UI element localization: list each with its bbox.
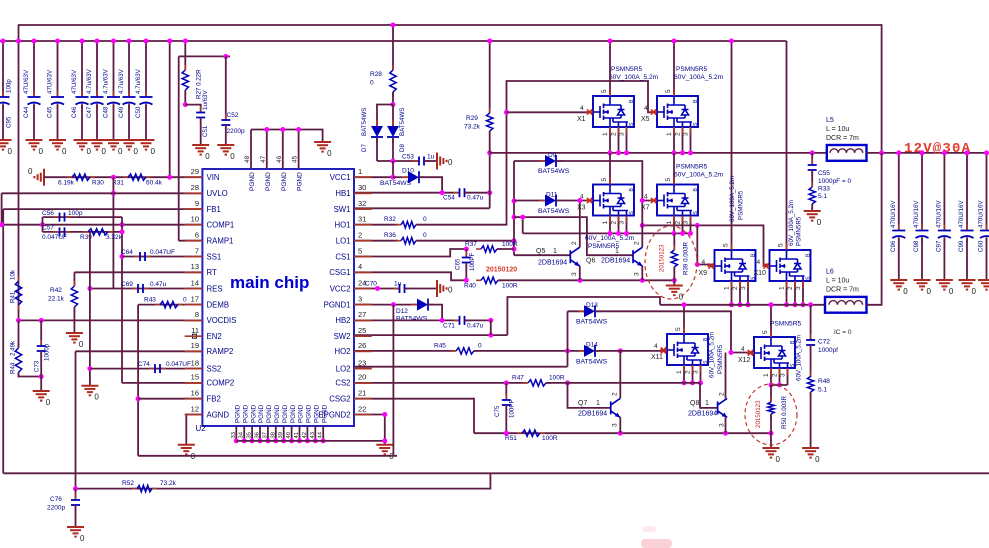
capacitor C52	[225, 56, 227, 120]
svg-text:60V_100A_5.2m: 60V_100A_5.2m	[796, 335, 803, 381]
diode D11 BAT54WS	[514, 200, 545, 202]
wire UVLO	[2, 192, 203, 194]
wire LO2 riser to D13	[567, 311, 569, 366]
svg-text:DEMB: DEMB	[207, 300, 230, 309]
svg-text:L6: L6	[826, 269, 834, 276]
svg-text:27: 27	[358, 310, 366, 319]
svg-text:C72: C72	[818, 339, 830, 346]
wire HO1	[354, 224, 398, 226]
svg-text:UVLO: UVLO	[207, 189, 228, 198]
svg-text:BAT54WS: BAT54WS	[396, 316, 428, 323]
svg-text:C60: C60	[978, 240, 985, 252]
svg-text:0: 0	[8, 147, 13, 156]
resistor R43	[155, 304, 183, 306]
wire VOCDIS	[19, 319, 203, 321]
svg-text:PSMN5R5: PSMN5R5	[588, 243, 619, 250]
svg-text:C54: C54	[443, 195, 455, 202]
svg-text:COMP1: COMP1	[207, 221, 235, 230]
resistor R52	[132, 488, 157, 490]
svg-text:R50 0.003R: R50 0.003R	[781, 395, 788, 429]
svg-text:4: 4	[644, 105, 648, 112]
svg-text:100R: 100R	[549, 375, 565, 382]
transistor Q8 2DB1694	[718, 398, 728, 417]
svg-text:RAMP2: RAMP2	[207, 347, 234, 356]
svg-text:13: 13	[191, 262, 199, 271]
wire left edge net	[1, 193, 3, 224]
wire COMP1	[2, 224, 203, 226]
svg-text:VOCDIS: VOCDIS	[207, 316, 237, 325]
svg-text:9: 9	[195, 199, 199, 208]
svg-text:0: 0	[949, 287, 954, 296]
svg-text:DCR = 7m: DCR = 7m	[826, 287, 859, 294]
svg-text:D11: D11	[546, 192, 558, 199]
svg-text:21: 21	[358, 389, 366, 398]
wire left loop vertical	[2, 209, 4, 473]
svg-text:R45: R45	[434, 343, 446, 350]
svg-text:4: 4	[358, 262, 362, 271]
svg-text:470U/16V: 470U/16V	[958, 200, 965, 228]
capacitor C75	[505, 383, 507, 400]
svg-text:COMP2: COMP2	[207, 379, 235, 388]
capacitor C74	[149, 368, 166, 370]
wire LO2	[354, 366, 568, 368]
wire FB1	[3, 208, 202, 210]
svg-text:470U/16V: 470U/16V	[935, 200, 942, 228]
svg-text:0.47u: 0.47u	[467, 323, 484, 330]
svg-text:3: 3	[693, 370, 700, 374]
svg-text:470U/16V: 470U/16V	[978, 200, 985, 228]
svg-text:100R: 100R	[542, 435, 558, 442]
svg-text:2: 2	[772, 373, 779, 377]
svg-text:20150120: 20150120	[486, 267, 517, 274]
capacitor C95	[2, 41, 4, 96]
svg-text:47: 47	[260, 155, 267, 163]
diode D9 BAT54WS	[514, 160, 545, 162]
svg-text:R43: R43	[144, 297, 156, 304]
svg-text:C70: C70	[365, 281, 377, 288]
svg-text:D14: D14	[586, 342, 598, 349]
resistor R44	[18, 343, 20, 378]
svg-text:60V_100A_5.2m: 60V_100A_5.2m	[674, 172, 724, 179]
svg-text:44: 44	[318, 431, 324, 438]
wire VIN row	[44, 176, 202, 178]
svg-text:PGND: PGND	[281, 172, 288, 191]
svg-text:3: 3	[795, 286, 802, 290]
svg-text:3: 3	[780, 373, 787, 377]
svg-text:PGND: PGND	[282, 404, 289, 423]
ground C53	[437, 153, 447, 170]
resistor R39 0.003R shunt	[673, 233, 675, 250]
svg-text:PGND: PGND	[290, 404, 297, 423]
wire AGND	[186, 415, 202, 445]
svg-text:0: 0	[134, 147, 139, 156]
svg-text:R37: R37	[465, 241, 477, 248]
svg-text:X9: X9	[699, 270, 708, 277]
svg-text:PGND: PGND	[274, 404, 281, 423]
wire Q8 collector	[725, 353, 727, 399]
svg-text:10k: 10k	[10, 269, 17, 280]
svg-text:BAT54WS: BAT54WS	[361, 108, 368, 136]
ground top pins	[314, 142, 331, 152]
ground C46	[74, 140, 91, 150]
svg-text:73.2k: 73.2k	[464, 124, 481, 131]
svg-text:D9: D9	[548, 152, 557, 159]
svg-text:5: 5	[601, 89, 608, 93]
wire phase2 node to L6	[660, 304, 825, 306]
svg-text:4.7u/63V: 4.7u/63V	[118, 68, 125, 94]
resistor R48	[810, 371, 812, 397]
svg-text:RT: RT	[207, 268, 217, 277]
wire pin22 EPGND2	[354, 415, 385, 445]
svg-text:PGND: PGND	[297, 172, 304, 191]
capacitor C73	[40, 320, 42, 346]
wire left riser to R41/VOCDIS	[18, 25, 20, 320]
resistor R31	[123, 176, 151, 178]
ground C95	[0, 140, 12, 150]
svg-text:0.47u: 0.47u	[150, 281, 167, 288]
svg-text:34: 34	[239, 431, 245, 438]
svg-text:R36: R36	[384, 232, 396, 239]
svg-text:45: 45	[292, 155, 299, 163]
wire X3 gate	[556, 200, 593, 202]
wire RAMP2	[76, 350, 203, 352]
resistor R27	[184, 41, 186, 70]
svg-text:3: 3	[571, 272, 578, 276]
svg-text:5: 5	[675, 327, 682, 331]
svg-text:HB2: HB2	[335, 316, 350, 325]
svg-text:2DB1694: 2DB1694	[688, 411, 717, 418]
svg-text:3.32k: 3.32k	[106, 234, 123, 241]
svg-text:C97: C97	[935, 240, 942, 252]
svg-text:1: 1	[666, 132, 673, 136]
svg-text:1000p: 1000p	[44, 343, 51, 361]
chip pins bottom PGND 33-44	[235, 426, 237, 441]
svg-text:DCR = 7m: DCR = 7m	[826, 135, 859, 142]
decorative pink blob	[641, 539, 672, 548]
svg-text:2200p: 2200p	[47, 505, 65, 512]
svg-text:0: 0	[927, 287, 932, 296]
svg-text:CS1: CS1	[335, 252, 350, 261]
svg-text:C95: C95	[6, 116, 13, 128]
svg-text:470U/16V: 470U/16V	[890, 200, 897, 228]
wire LO1 riser x514	[513, 161, 515, 255]
wire emitter bus y280.3	[498, 279, 674, 281]
wire SW2 riser to phase2	[507, 297, 660, 335]
svg-text:0: 0	[94, 393, 99, 402]
ground bottom right	[376, 445, 393, 455]
wire LO1	[354, 240, 398, 242]
svg-text:0: 0	[679, 293, 684, 302]
wire top bus V+ lower	[0, 40, 787, 42]
wire Q5 emitter	[579, 266, 581, 280]
svg-text:6.19k: 6.19k	[58, 180, 75, 187]
svg-text:AGND: AGND	[207, 410, 230, 419]
pin EN2 no-connect	[193, 334, 197, 338]
transistor Q6 2DB1694	[633, 247, 643, 266]
svg-text:0.047UF: 0.047UF	[150, 249, 175, 256]
svg-text:25: 25	[358, 326, 366, 335]
chip pins left	[185, 176, 203, 178]
svg-text:C73: C73	[34, 360, 41, 372]
wire SW1 to phase	[354, 207, 490, 209]
svg-text:48: 48	[244, 155, 251, 163]
svg-text:39: 39	[278, 432, 284, 438]
svg-text:Q6: Q6	[586, 258, 595, 265]
svg-text:32: 32	[358, 199, 366, 208]
svg-text:40: 40	[286, 432, 292, 438]
svg-text:31: 31	[358, 215, 366, 224]
wire X1 X5 sources to phase	[609, 127, 611, 153]
svg-text:20150123: 20150123	[755, 400, 762, 428]
svg-text:R29: R29	[466, 115, 478, 122]
svg-text:38: 38	[270, 432, 276, 438]
svg-text:Q8: Q8	[690, 400, 699, 407]
wire DEMB	[138, 304, 202, 306]
svg-text:5.1: 5.1	[818, 193, 827, 200]
svg-text:3: 3	[612, 423, 619, 427]
ground AGND	[178, 445, 195, 455]
svg-text:29: 29	[191, 167, 199, 176]
svg-text:main chip: main chip	[230, 273, 309, 292]
ground C48	[105, 140, 122, 150]
svg-text:Q5: Q5	[536, 248, 545, 255]
svg-text:PSMN5R5: PSMN5R5	[676, 66, 707, 73]
svg-text:X5: X5	[641, 116, 650, 123]
svg-text:11: 11	[191, 326, 199, 335]
wire R31 to bus	[169, 41, 171, 177]
wire HO1 riser and over-route	[416, 81, 657, 225]
capacitor C48	[113, 41, 115, 96]
svg-text:PGND: PGND	[249, 172, 256, 191]
svg-text:C44: C44	[23, 106, 30, 118]
svg-text:C57: C57	[42, 225, 54, 232]
svg-text:2: 2	[675, 132, 682, 136]
svg-text:C49: C49	[118, 106, 125, 118]
svg-text:0: 0	[87, 147, 92, 156]
svg-text:2: 2	[719, 392, 726, 396]
svg-text:C71: C71	[443, 323, 455, 330]
ground C70	[437, 280, 447, 297]
wire Q7 collector	[619, 351, 621, 399]
svg-text:C65: C65	[455, 258, 462, 270]
wire RT	[74, 271, 202, 273]
svg-text:R32: R32	[384, 216, 396, 223]
wire vcc sub-rail y56	[179, 55, 230, 57]
svg-text:4: 4	[644, 194, 648, 201]
svg-text:33: 33	[231, 432, 237, 438]
svg-text:C56: C56	[42, 210, 54, 217]
svg-text:4.7u/63V: 4.7u/63V	[135, 68, 142, 94]
ground R42	[66, 333, 83, 343]
svg-text:C50: C50	[135, 106, 142, 118]
chip pins top PGND 48-45	[250, 130, 252, 170]
svg-text:SS1: SS1	[207, 252, 222, 261]
wire Q5 base	[514, 254, 570, 256]
inductor L6	[825, 297, 867, 313]
transistor X3 PSMN5R5	[593, 185, 634, 216]
capacitor C72	[810, 305, 812, 340]
transistor X9 PSMN5R5	[715, 250, 756, 281]
svg-text:20: 20	[358, 373, 366, 382]
wire D9 to X7 gate	[556, 161, 657, 201]
svg-text:0: 0	[205, 152, 210, 161]
svg-text:PGND: PGND	[321, 404, 328, 423]
wire long riser x75.5	[75, 351, 77, 488]
svg-text:C47: C47	[86, 106, 93, 118]
svg-text:1000pF = 0: 1000pF = 0	[818, 178, 851, 185]
svg-text:43: 43	[310, 432, 316, 438]
svg-text:FB1: FB1	[207, 205, 221, 214]
svg-text:R42: R42	[50, 287, 62, 294]
wire RAMP1	[179, 240, 203, 242]
capacitor C53	[377, 160, 419, 162]
svg-text:0: 0	[327, 149, 332, 158]
wire X9 gate riser	[697, 225, 714, 264]
svg-text:28: 28	[191, 183, 199, 192]
svg-text:0: 0	[79, 340, 84, 349]
transistor X5 PSMN5R5	[657, 96, 698, 127]
svg-text:C74: C74	[138, 361, 150, 368]
svg-text:42: 42	[302, 432, 308, 438]
ground C49	[121, 140, 138, 150]
wire phase1 bus SW	[490, 152, 827, 154]
svg-text:5.1: 5.1	[818, 387, 827, 394]
svg-text:0: 0	[478, 343, 482, 350]
svg-text:R51: R51	[505, 435, 517, 442]
svg-text:60V_100A_5.2m: 60V_100A_5.2m	[585, 235, 635, 242]
svg-text:L = 10u: L = 10u	[826, 126, 849, 133]
svg-text:60V_100A_5.2m: 60V_100A_5.2m	[729, 176, 736, 222]
resistor R28	[392, 25, 394, 70]
svg-text:0: 0	[448, 158, 453, 167]
wire L6 out	[867, 153, 882, 305]
capacitor C47	[96, 41, 98, 96]
transistor X12 PSMN5R5	[754, 337, 795, 368]
svg-text:HB1: HB1	[335, 189, 350, 198]
svg-text:VCC2: VCC2	[330, 284, 351, 293]
wire R39b left riser	[89, 232, 91, 386]
svg-text:PSMN5R5: PSMN5R5	[770, 321, 801, 328]
svg-text:1000pf: 1000pf	[818, 347, 838, 354]
svg-text:0: 0	[972, 287, 977, 296]
svg-text:0.047UF: 0.047UF	[42, 234, 67, 241]
svg-text:BAT54WS: BAT54WS	[576, 319, 608, 326]
svg-text:BAT54WS: BAT54WS	[576, 359, 608, 366]
svg-text:C99: C99	[958, 240, 965, 252]
ground C51	[192, 145, 209, 155]
wire CSG1 to R40	[354, 272, 466, 280]
resistor R32	[396, 224, 421, 226]
svg-text:0: 0	[62, 147, 67, 156]
svg-text:0: 0	[151, 147, 156, 156]
wire riser x393 to ground rail	[392, 305, 394, 456]
svg-text:60V_100A_5.2m: 60V_100A_5.2m	[788, 200, 795, 246]
resistor R42	[73, 272, 75, 286]
svg-text:1: 1	[358, 167, 362, 176]
wire RES	[90, 288, 202, 290]
svg-text:1: 1	[763, 373, 770, 377]
svg-text:C55: C55	[818, 170, 830, 177]
svg-text:PSMN5R5: PSMN5R5	[738, 190, 745, 220]
svg-text:2.49k: 2.49k	[10, 340, 17, 356]
wire COMP2	[122, 382, 202, 384]
svg-text:X10: X10	[754, 270, 767, 277]
svg-text:PGND: PGND	[314, 404, 321, 423]
svg-text:60.4k: 60.4k	[146, 180, 163, 187]
ground C99	[959, 280, 976, 290]
svg-text:18: 18	[191, 358, 199, 367]
wire X3 X7 drains	[609, 153, 611, 185]
wire Q7 base	[568, 383, 611, 408]
svg-text:15: 15	[191, 373, 199, 382]
svg-text:0: 0	[817, 218, 822, 227]
wire bottom ground rail	[138, 455, 397, 457]
svg-text:1: 1	[596, 400, 600, 407]
svg-text:1: 1	[666, 221, 673, 225]
diode D13 BAT54WS	[568, 310, 585, 312]
diode D7 BAT54WS	[377, 105, 393, 127]
wire Q7 emitter	[619, 417, 621, 433]
svg-text:C46: C46	[71, 106, 78, 118]
svg-text:3: 3	[683, 221, 690, 225]
svg-text:X3: X3	[577, 205, 586, 212]
capacitor C60	[986, 153, 988, 230]
svg-text:3: 3	[619, 221, 626, 225]
svg-text:47U/63V: 47U/63V	[71, 69, 78, 94]
wire PGND1	[354, 304, 417, 306]
wire CS1 to R37	[354, 249, 466, 257]
capacitor C46	[81, 41, 83, 96]
svg-text:L = 10u: L = 10u	[826, 278, 849, 285]
svg-text:L5: L5	[826, 117, 834, 124]
svg-text:0: 0	[423, 216, 427, 223]
resistor R36	[396, 240, 421, 242]
transistor X7 PSMN5R5	[657, 185, 698, 216]
svg-text:37: 37	[262, 432, 268, 438]
wire comp riser x122	[121, 217, 123, 383]
svg-text:0: 0	[230, 152, 235, 161]
svg-text:0.47u: 0.47u	[467, 195, 484, 202]
wire Q8 base	[700, 383, 718, 408]
svg-text:4: 4	[580, 105, 584, 112]
ground C45	[49, 140, 66, 150]
wire gate feed y217.1	[514, 217, 633, 255]
capacitor C99	[966, 153, 968, 230]
svg-text:PGND1: PGND1	[324, 300, 351, 309]
svg-text:41: 41	[294, 432, 300, 438]
svg-text:2DB1694: 2DB1694	[538, 260, 567, 267]
wire UVLO riser	[112, 177, 114, 288]
diode D14 BAT54WS	[578, 350, 601, 352]
svg-text:4: 4	[580, 194, 584, 201]
svg-text:4.7u/63V: 4.7u/63V	[86, 68, 93, 94]
svg-text:R48: R48	[818, 378, 830, 385]
svg-text:0: 0	[39, 147, 44, 156]
capacitor C65	[465, 249, 467, 257]
ground R48	[802, 448, 819, 458]
ground divider left	[34, 169, 44, 186]
resistor R37	[476, 248, 502, 250]
svg-text:0: 0	[370, 80, 374, 87]
wire R52 row	[76, 473, 491, 488]
svg-text:D13: D13	[586, 302, 598, 309]
capacitor C64	[134, 256, 151, 258]
resistor R50 0.003R shunt	[770, 385, 772, 402]
svg-text:2: 2	[358, 231, 362, 240]
svg-text:0: 0	[423, 232, 427, 239]
capacitor C45	[57, 41, 59, 96]
svg-text:1: 1	[779, 286, 786, 290]
